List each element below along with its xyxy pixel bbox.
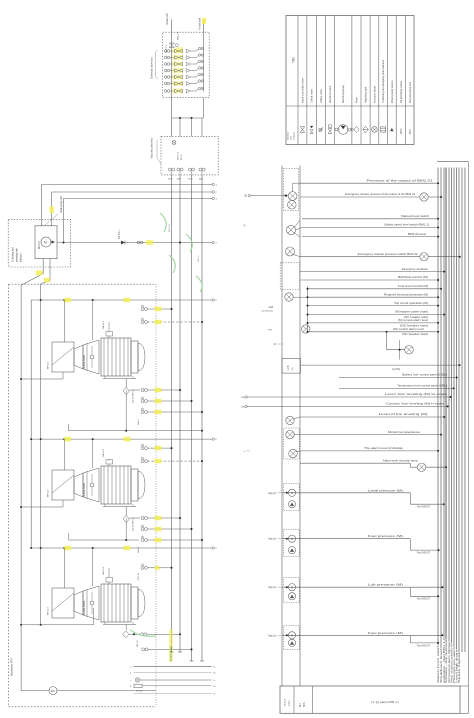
solenoid valve row 2 — [164, 56, 167, 59]
svg-text:SA 4.5 SM 2.6: SA 4.5 SM 2.6 — [132, 389, 135, 403]
green highlight swoosh 2 — [186, 234, 192, 252]
rung with jog y=463.2 — [300, 462, 410, 464]
svg-text:Collecting and: Collecting and — [12, 247, 15, 262]
svg-text:SOV 1.1: SOV 1.1 — [138, 572, 140, 581]
junction wire below solenoid box — [171, 98, 173, 137]
bucket motor 2 solenoid below 3 — [141, 539, 144, 542]
bottom title block — [280, 686, 460, 713]
svg-text:Fuel IN/OUT: Fuel IN/OUT — [417, 599, 430, 601]
svg-text:M 1.6: M 1.6 — [181, 154, 183, 160]
bucket motor 3 gearbox — [52, 588, 74, 618]
svg-text:Fuel IN/OUT: Fuel IN/OUT — [417, 553, 430, 555]
svg-text:d: d — [130, 686, 131, 688]
control box down wires — [42, 259, 44, 274]
svg-text:SOV 2.2: SOV 2.2 — [178, 151, 180, 160]
svg-text:Level 'low' leveling (M) to sc: Level 'low' leveling (M) to scale — [385, 393, 448, 396]
solenoid valve row 7 — [164, 90, 167, 93]
bucket motor 3 motor body — [101, 584, 131, 622]
svg-text:Title: Title — [292, 57, 296, 63]
rung y=417.0 — [300, 416, 444, 418]
rail V1 — [171, 175, 173, 652]
svg-text:Contact 'low' leveling (M) h s: Contact 'low' leveling (M) h scale — [386, 403, 445, 406]
svg-text:Spare signal: Spare signal — [457, 652, 461, 683]
svg-text:Battery 'low' control panel (C: Battery 'low' control panel (CB1.) — [402, 374, 447, 377]
rail left C x=31 — [30, 300, 32, 548]
bucket motor 2 gearbox — [52, 470, 74, 500]
svg-text:Emergency release pressure swi: Emergency release pressure switch BM1.02 — [358, 253, 419, 256]
bucket motor 1 top wire — [31, 299, 212, 301]
solenoid box top yellow — [176, 47, 183, 53]
rung y=183.2 — [300, 182, 438, 184]
unit1 funnel drain to wire — [125, 395, 127, 431]
bucket motor 3 drain stub — [125, 625, 127, 631]
rung y=288.8 — [308, 288, 442, 290]
solenoid valve row 1 — [164, 50, 167, 53]
drain pump control box — [35, 226, 57, 259]
legend table frame — [286, 16, 414, 145]
svg-text:Collecting and pumping tank in: Collecting and pumping tank indicator — [381, 60, 385, 103]
bucket motor 1 gearbox — [52, 342, 74, 372]
svg-text:(1): (1) — [243, 225, 246, 227]
svg-text:SA 1.1: SA 1.1 — [137, 546, 140, 553]
svg-text:Water pump station: Water pump station — [390, 80, 394, 103]
bucket motor 2 solenoid below 1 — [129, 517, 140, 519]
svg-text:(NC breaker start): (NC breaker start) — [402, 333, 428, 336]
solenoid box collector — [203, 32, 205, 91]
svg-text:SM 1.3: SM 1.3 — [137, 640, 139, 647]
svg-text:The alarm level of display: The alarm level of display — [364, 447, 404, 450]
svg-text:Safety valve: Safety valve — [319, 88, 323, 103]
power 24V riser — [171, 19, 173, 97]
svg-text:MC: MC — [51, 689, 55, 693]
rail V2 — [179, 175, 181, 652]
svg-text:Filter: Filter — [354, 97, 358, 103]
bucket motor 2 solenoid above 2 — [141, 460, 144, 463]
bucket motor 3 feeders — [63, 548, 65, 588]
bus vertical lines — [437, 168, 439, 646]
check valve on wire 242.5 — [121, 241, 125, 245]
rung y=314.5 — [308, 314, 445, 316]
inter-unit wire 2 — [69, 539, 139, 541]
svg-text:BPU1.2: BPU1.2 — [48, 489, 50, 497]
svg-text:Level of the leveling (M): Level of the leveling (M) — [379, 413, 428, 416]
svg-text:Fuel pressure (M): Fuel pressure (M) — [368, 632, 403, 635]
bucket motor 1 drain line — [125, 379, 127, 388]
bucket motor 1 solenoid below 1 — [129, 389, 140, 391]
column top dashed box — [283, 168, 298, 210]
svg-text:(M) control alarm level: (M) control alarm level — [393, 328, 425, 331]
svg-text:Lub pressure (M): Lub pressure (M) — [368, 584, 403, 587]
svg-text:Adjusting tank: Adjusting tank — [364, 86, 368, 103]
bucket motor 2 drain line — [125, 507, 127, 516]
solenoid valve row 6 — [164, 82, 167, 85]
green highlight swoosh 5 — [130, 630, 156, 636]
inter-unit wire 1 — [69, 430, 202, 432]
solenoid valve row 4 — [164, 69, 167, 72]
bucket motor 1 suction pipe — [62, 372, 64, 379]
svg-text:Fuel pressure (M): Fuel pressure (M) — [368, 535, 403, 538]
svg-text:Solenoid valve box: Solenoid valve box — [150, 57, 154, 79]
svg-text:M2.2: M2.2 — [177, 179, 181, 181]
bucket motor 3 suction pipe — [93, 608, 95, 625]
bottom solenoid 1 — [141, 633, 144, 636]
rung y=236.6 — [302, 236, 438, 238]
svg-text:1W 4.5.2: 1W 4.5.2 — [169, 223, 171, 232]
svg-text:Bucket motor: Bucket motor — [83, 483, 86, 497]
svg-text:To fuel tank: To fuel tank — [198, 17, 201, 30]
rung y=297.2 — [308, 296, 439, 298]
svg-text:1B: 1B — [244, 196, 247, 198]
svg-text:Fuel IN/OUT: Fuel IN/OUT — [417, 507, 430, 509]
svg-text:Nga (L): Nga (L) — [268, 539, 276, 541]
green highlight swoosh 1 — [160, 213, 166, 232]
svg-text:(LA P4): (LA P4) — [392, 368, 400, 371]
svg-text:Fuel level control (M): Fuel level control (M) — [398, 285, 428, 288]
svg-text:Acoustic alarm: Acoustic alarm — [372, 86, 376, 103]
svg-text:M: M — [44, 241, 47, 245]
bucket motor 1 coupling — [74, 345, 83, 369]
drain pump motor symbol — [41, 237, 51, 247]
svg-text:SPS: SPS — [304, 702, 306, 707]
svg-text:SA 4.4.1: SA 4.4.1 — [118, 230, 121, 239]
bottom diamond symbol — [123, 631, 129, 638]
bottom line 1 — [134, 665, 212, 667]
rail V4 — [201, 175, 203, 661]
svg-text:Top circuit operation (M): Top circuit operation (M) — [394, 302, 428, 305]
machinery space dashed box — [9, 283, 157, 285]
instrument P6 with rung y=450.9 — [289, 449, 298, 458]
solenoid valve row 3 — [164, 63, 167, 66]
svg-text:Alarm level of pump lamp: Alarm level of pump lamp — [383, 460, 419, 463]
bucket motor 2 solenoid above 1 — [141, 447, 144, 450]
cross wire y=184.5 — [42, 184, 213, 186]
svg-text:BPU 2.1: BPU 2.1 — [39, 240, 41, 249]
svg-text:1GB: 1GB — [268, 307, 273, 309]
instrument column rails — [281, 166, 283, 687]
column dashed box 2 — [280, 263, 300, 289]
svg-text:Symbols: Symbols — [288, 131, 290, 140]
instrument P3 — [285, 293, 293, 301]
oily water box valve — [172, 141, 176, 145]
svg-text:Electrical pump: Electrical pump — [341, 85, 345, 103]
cross wire y=198.5 — [64, 198, 213, 200]
svg-text:Oil pumping station: Oil pumping station — [399, 80, 403, 103]
svg-text:pump: pump — [289, 700, 291, 706]
svg-text:1d: 1d — [213, 686, 215, 688]
highlighted note — [169, 630, 173, 663]
bucket motor 3 motor feet — [103, 624, 136, 626]
right frame border — [437, 161, 468, 163]
svg-text:Pressure of the output of BM1.: Pressure of the output of BM1.01 — [367, 179, 434, 182]
pump cluster 4 rung — [282, 634, 410, 636]
bottom line 5 — [134, 692, 212, 694]
svg-text:Ball float control (M): Ball float control (M) — [398, 276, 428, 279]
instrument P5 with rung y=434.6 — [286, 430, 294, 438]
svg-text:Required electrical protection: Required electrical protection (M) — [384, 293, 428, 296]
svg-text:SA 1.1: SA 1.1 — [137, 418, 140, 425]
rung y=365.1 — [301, 364, 460, 366]
green highlight swoosh 4 — [196, 276, 202, 292]
svg-text:M2.1: M2.1 — [169, 179, 173, 181]
pump cluster 2 motor-pump pair — [283, 529, 299, 556]
bottom line 2 — [134, 672, 212, 674]
bucket motor 1 motor feet — [103, 378, 136, 380]
svg-text:Power 24V: Power 24V — [166, 13, 169, 25]
bucket motor 2 feeders — [63, 439, 65, 470]
solenoid valve box — [163, 32, 210, 97]
bucket motor 1 solenoid above 2 — [141, 321, 144, 324]
svg-text:(M) remote alarm level: (M) remote alarm level — [398, 319, 429, 322]
svg-text:1W 4.1: 1W 4.1 — [198, 255, 200, 262]
risers to oily water box — [179, 118, 181, 136]
svg-text:Nga (L): Nga (L) — [268, 635, 276, 637]
svg-text:Motor temperature: Motor temperature — [388, 431, 421, 434]
instrument P4 with rung y=417 — [286, 416, 294, 424]
collecting tank dashed box — [8, 219, 70, 267]
bottom solenoid 2 — [142, 648, 145, 651]
rung y=406.4 — [248, 405, 448, 407]
svg-text:Lobal pressure (M): Lobal pressure (M) — [368, 489, 403, 492]
svg-text:(M) happen power (start): (M) happen power (start) — [395, 311, 428, 314]
svg-text:BPU1.1: BPU1.1 — [48, 361, 50, 369]
svg-text:M2.4: M2.4 — [199, 179, 203, 181]
fuel tank pipe — [203, 19, 205, 33]
rung y=322.9 — [308, 322, 439, 324]
step sub-circuit hung from rung y=331.8 — [386, 331, 388, 333]
bucket motor 2 motor feet — [103, 506, 136, 508]
bucket motor 1 motor body — [101, 338, 131, 376]
svg-text:Nga (L): Nga (L) — [268, 493, 276, 495]
svg-text:Emergency shutdown: Emergency shutdown — [402, 268, 429, 271]
rung y=280.0 — [300, 279, 438, 281]
rung y=434.6 — [294, 434, 441, 436]
cross wire y=192 — [52, 191, 213, 193]
instrument P1 — [288, 192, 297, 201]
green highlight swoosh 3 — [169, 255, 175, 273]
unit2 funnel drain to wire — [125, 523, 127, 541]
control box feeders — [41, 185, 43, 226]
svg-text:Manual level switch: Manual level switch — [401, 215, 430, 218]
svg-text:Electrical valve: Electrical valve — [328, 85, 332, 103]
rung y=397.0 — [248, 396, 451, 398]
bucket motor 1 feeders — [63, 300, 65, 342]
machinery space dotted rail — [155, 284, 157, 707]
rung y=197.0 — [300, 196, 420, 198]
svg-text:BPU: BPU — [409, 129, 412, 134]
solenoid box top valve — [169, 43, 175, 48]
rung y=450.9 — [302, 450, 438, 452]
svg-text:Temperature level control pane: Temperature level control panel (CB1.) — [397, 385, 447, 388]
svg-text:Nga (L): Nga (L) — [268, 587, 276, 589]
svg-text:Fuel IN/OUT: Fuel IN/OUT — [417, 645, 430, 647]
svg-text:Drain &: Drain & — [284, 698, 287, 706]
svg-text:Check valve: Check valve — [310, 88, 314, 103]
rung y=218.8 — [302, 218, 438, 220]
svg-text:(NC breaker start): (NC breaker start) — [400, 324, 428, 327]
svg-text:analysis: analysis — [294, 131, 296, 140]
bucket motor 1 solenoid below 2 — [141, 400, 144, 403]
rail left B x=41 — [40, 284, 42, 625]
pump cluster 2 rung — [282, 538, 410, 540]
svg-text:SA 4.2.1: SA 4.2.1 — [102, 448, 105, 457]
svg-text:BM1.02 level: BM1.02 level — [408, 233, 427, 236]
level switch LS2 — [286, 247, 295, 256]
rung y=377.5 — [339, 377, 457, 379]
bucket motor 2 top wire — [31, 438, 212, 440]
bucket motor 3 coupling — [74, 591, 83, 615]
rail V3 — [191, 175, 193, 661]
wire to CB y=242.5 — [57, 242, 212, 244]
pump cluster 3 motor-pump pair — [283, 578, 299, 603]
svg-text:Machinery SPS: Machinery SPS — [10, 658, 14, 676]
svg-text:Bucket motor: Bucket motor — [83, 355, 86, 369]
svg-text:c: c — [130, 680, 131, 682]
svg-text:Bucket motor: Bucket motor — [83, 601, 86, 615]
svg-text:WPS: WPS — [400, 128, 403, 134]
svg-text:(membrane): (membrane) — [262, 309, 274, 312]
cluster feeder — [307, 286, 309, 331]
svg-text:1c: 1c — [213, 680, 215, 682]
svg-text:indicator: indicator — [20, 253, 23, 262]
rung y=305.6 — [308, 305, 439, 307]
pump cluster 4 motor-pump pair — [283, 626, 299, 650]
pump cluster 1 rung — [282, 492, 410, 494]
svg-text:(1. (p) panel (CB) 1.): (1. (p) panel (CB) 1.) — [371, 700, 399, 704]
bucket motor 1 solenoid below 3 — [141, 411, 144, 414]
level switch LS1 — [286, 225, 295, 234]
bucket motor 2 motor body — [101, 466, 131, 504]
bucket motor 1 solenoid above 1 — [141, 308, 144, 311]
coil pair on wire 242.5 — [137, 241, 140, 244]
svg-text:SA 4.3.1: SA 4.3.1 — [102, 566, 105, 575]
oily water box — [161, 136, 218, 175]
bottom alarm symbol line 3 — [135, 678, 139, 682]
svg-text:W06 2.1: W06 2.1 — [178, 31, 180, 40]
rail left A x=21 — [20, 285, 22, 690]
pump cluster 1 motor-pump pair — [283, 483, 299, 510]
bucket motor 2 top valve — [106, 460, 113, 465]
rung y=331.8 — [308, 331, 439, 333]
instrument P2 — [288, 201, 297, 210]
oily water box pumps — [168, 168, 171, 171]
svg-text:(NC breaker start): (NC breaker start) — [404, 316, 428, 319]
rung y=227.5 — [302, 227, 438, 229]
svg-text:(Safety valve) level switch (B: (Safety valve) level switch (BM1.2) — [384, 224, 429, 227]
bucket motor 2 suction pipe — [62, 500, 64, 507]
bucket motor 3 top valve — [106, 578, 113, 583]
bucket motor 1 top valve — [106, 332, 113, 337]
svg-text:SA 4.5 SM 2.6: SA 4.5 SM 2.6 — [132, 517, 135, 531]
pump cluster 3 rung — [282, 586, 410, 588]
drain pump leader line — [44, 214, 58, 226]
svg-text:Emergency release pressure of: Emergency release pressure of the output… — [345, 193, 416, 196]
svg-text:Slop oily water box: Slop oily water box — [151, 137, 154, 159]
svg-text:Hand-controlled valve: Hand-controlled valve — [300, 77, 304, 103]
svg-text:LCB: LCB — [287, 365, 290, 370]
bucket motor 3 solenoid above — [141, 566, 144, 569]
svg-text:M2.3: M2.3 — [189, 179, 193, 181]
instrument VF on feeder — [302, 325, 310, 333]
cross wire y=195.6 — [251, 195, 286, 197]
bucket motor 3 top wire — [31, 547, 212, 549]
bottom resistor symbol line 4 — [134, 684, 142, 687]
LCB box — [282, 358, 301, 373]
svg-text:Booster pump unit: Booster pump unit — [408, 82, 412, 103]
rung y=388.4 — [339, 387, 454, 389]
bucket motor 2 solenoid below 2 — [141, 528, 144, 531]
MC motor circle — [49, 687, 57, 695]
svg-text:SA 4.1.1: SA 4.1.1 — [102, 320, 105, 329]
svg-text:pumping tank: pumping tank — [16, 247, 19, 262]
svg-text:Drain pump unit: Drain pump unit — [60, 196, 63, 213]
svg-text:To RO pump: To RO pump — [169, 646, 173, 661]
solenoid valve row 5 — [164, 76, 167, 79]
rung y=256.7 — [300, 256, 420, 258]
rung y=271.6 — [300, 271, 445, 273]
bucket motor 2 coupling — [74, 473, 83, 497]
svg-text:BPU1.3: BPU1.3 — [48, 607, 50, 615]
